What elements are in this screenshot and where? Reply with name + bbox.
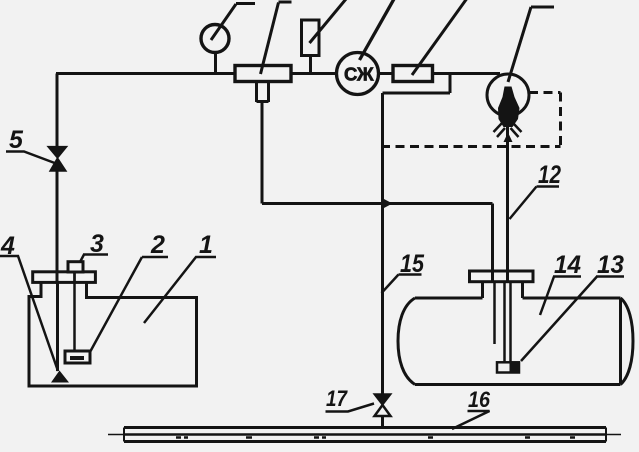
wire line 15 vertical <box>381 93 384 394</box>
float box 2 <box>65 351 90 363</box>
valve 17 <box>374 394 391 416</box>
wire dashed control line top segment <box>529 91 561 94</box>
flange plate on tank 1 <box>33 272 96 283</box>
pump impeller blob <box>498 87 520 128</box>
wire dashed control line bottom segment <box>381 145 561 148</box>
wire pipe manifold to counter <box>290 72 338 75</box>
sensor rod crossing flange <box>73 270 76 284</box>
foot strainer box 13 <box>497 362 519 372</box>
wire gauge stem <box>214 52 217 74</box>
flow regulator <box>393 0 467 82</box>
sparger bar tick marks <box>176 436 575 439</box>
pressure gauge <box>201 4 255 53</box>
wire fill dip tube inside tank 14 <box>493 282 496 344</box>
label 17 <box>326 386 375 412</box>
pump whisker strokes <box>494 123 522 137</box>
label 3 <box>80 230 108 262</box>
fitting box 3 <box>68 262 83 272</box>
thermometer pocket <box>302 0 347 56</box>
wire branch down from main pipe <box>449 74 452 94</box>
wire pump suction drop line 12 <box>506 113 509 271</box>
wire manifold drain stem <box>257 81 269 102</box>
svg-text:13: 13 <box>597 251 624 279</box>
pump with motor <box>487 7 554 116</box>
label 1 <box>144 231 216 323</box>
svg-text:СЖ: СЖ <box>344 64 374 85</box>
svg-text:16: 16 <box>468 387 491 412</box>
label 15 <box>382 250 425 293</box>
flange plate on tank 14 <box>470 271 534 282</box>
tank 1 outline <box>29 282 197 386</box>
manifold (distributor) <box>235 2 292 82</box>
wire dashed control line right segment <box>559 93 562 147</box>
label 5 <box>6 126 56 164</box>
suction cone 4 <box>51 371 69 383</box>
svg-text:17: 17 <box>326 386 349 411</box>
svg-text:1: 1 <box>199 231 213 259</box>
svg-text:14: 14 <box>554 251 581 279</box>
svg-text:5: 5 <box>9 126 24 154</box>
wire thermometer stem <box>309 55 312 74</box>
wire riser crossing flange <box>56 270 59 284</box>
wire left riser upper <box>56 74 59 148</box>
sensor rod to float 2 <box>73 272 76 351</box>
node flow arrow on header <box>383 199 393 209</box>
wire pipe regulator to pump <box>433 72 500 75</box>
wire branch horizontal to line 15 <box>383 92 451 95</box>
wire header horizontal line <box>262 202 493 205</box>
wire suction dip tube double line <box>505 282 511 362</box>
tank 14 neck <box>483 282 523 298</box>
label 4 <box>0 232 58 371</box>
wire pipe counter to regulator <box>379 72 395 75</box>
wire manifold drop line <box>261 102 264 204</box>
tank 14 outline <box>398 298 633 385</box>
wire header drop to tank 14 flange <box>491 204 494 272</box>
flow arrow up on suction line <box>504 133 513 143</box>
label 2 <box>90 231 168 352</box>
wire main pipe left horizontal <box>56 72 236 75</box>
label 12 <box>510 161 562 219</box>
wire valve 17 to sparger bar <box>381 415 384 428</box>
label 13 <box>521 251 624 361</box>
wire left riser lower <box>56 170 59 272</box>
label 14 <box>540 251 581 315</box>
sparger bar 16 <box>108 428 621 442</box>
valve 5 <box>48 147 67 171</box>
wire left dip pipe inside tank 1 <box>56 282 59 371</box>
label 16 <box>452 387 491 429</box>
svg-text:2: 2 <box>150 231 165 259</box>
liquid counter U-SZh <box>337 0 395 95</box>
svg-text:12: 12 <box>538 161 561 189</box>
wire drop lines crossing flange 14 <box>493 269 508 283</box>
